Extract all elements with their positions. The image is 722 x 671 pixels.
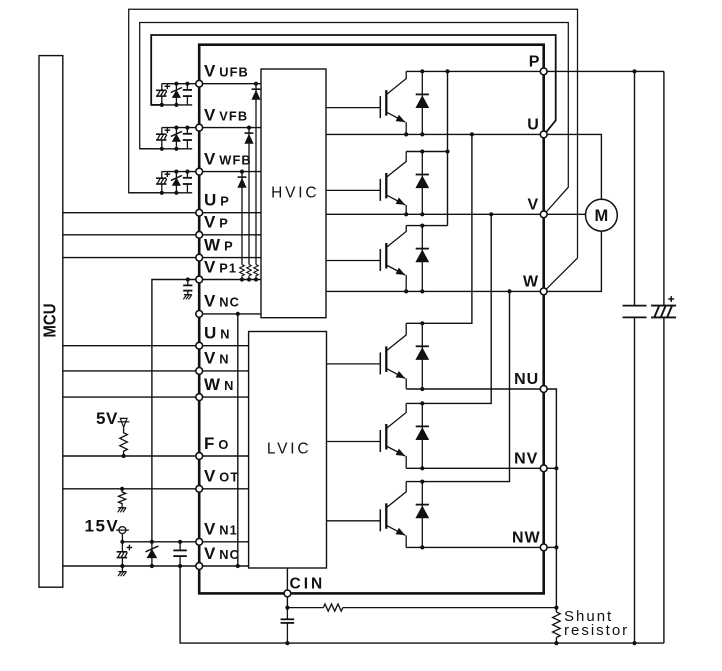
svg-text:P1: P1 — [219, 260, 237, 275]
MCU label — [40, 304, 60, 338]
svg-text:V: V — [204, 349, 216, 368]
wire V-phase feedback loop (V pin to VVFB bootstrap return) — [140, 23, 569, 213]
node VWFB return junction 2 — [174, 191, 178, 195]
transistor IGBT NV low-side — [327, 403, 407, 468]
wire V to NV collector — [406, 214, 491, 403]
node NU collector diode junction — [420, 321, 424, 325]
node VWFB return junction 1 — [160, 191, 164, 195]
node shunt bottom junction — [554, 641, 558, 645]
HVIC label — [271, 185, 319, 202]
resistor bootstrap current-limit RU (internal) — [254, 265, 259, 280]
VN pin label — [204, 349, 230, 368]
VN1 pin label — [204, 520, 238, 539]
node W rail junction x406 — [404, 289, 408, 293]
diode freewheel NW low-side — [415, 482, 429, 548]
wire VUFB bootstrap top rail — [162, 83, 199, 85]
wire NW pin to shunt column — [544, 546, 557, 548]
svg-text:V: V — [204, 544, 216, 563]
wire VP1 pin to HVIC — [199, 279, 261, 281]
node W rail junction x422 — [420, 289, 424, 293]
15V label — [85, 517, 120, 536]
pin VVFB — [196, 124, 203, 131]
wire 15V to VN1 pin — [122, 541, 199, 543]
electrolytic capacitor DC bus source — [651, 296, 676, 317]
node U rail junction x422 — [420, 132, 424, 136]
LVIC label — [267, 441, 312, 458]
svg-text:15V: 15V — [85, 517, 120, 536]
pin WN — [196, 394, 203, 401]
svg-text:P: P — [219, 216, 229, 231]
transistor IGBT U-phase high-side — [326, 71, 406, 134]
U pin label — [527, 117, 540, 134]
wire VNC pin to LVIC — [199, 565, 248, 567]
MCU block — [39, 56, 63, 588]
wire VN pin to LVIC — [199, 370, 248, 372]
node ground rail bulk cap junction — [632, 641, 636, 645]
wire VP1 to 15V supply line — [152, 280, 199, 542]
V pin label — [528, 197, 540, 214]
capacitor VP1 decoupling — [183, 280, 192, 295]
electrolytic capacitor 15V supply — [117, 542, 133, 566]
svg-text:F: F — [204, 434, 214, 453]
diode bootstrap DV (internal) — [244, 128, 253, 265]
capacitor U-phase bootstrap — [183, 84, 192, 105]
wire W output rail — [326, 290, 544, 292]
node VN1 zener junction — [150, 540, 154, 544]
svg-text:NU: NU — [514, 371, 539, 388]
node VVFB rail junction 2 — [185, 126, 189, 130]
pin CIN — [284, 590, 291, 597]
resistor 5V pull-up — [120, 427, 128, 456]
resistor bootstrap current-limit RV (internal) — [247, 265, 252, 280]
svg-text:OT: OT — [219, 470, 239, 485]
wire VUFB bootstrap bottom rail — [151, 104, 192, 106]
node VUFB rail junction 2 — [185, 82, 189, 86]
svg-text:U: U — [204, 324, 216, 343]
driver LVIC block — [249, 332, 327, 569]
svg-text:U: U — [527, 117, 540, 134]
wire W-phase feedback loop (W pin to VWFB bootstrap return) — [129, 9, 578, 289]
svg-text:V: V — [204, 467, 216, 486]
svg-text:P: P — [224, 238, 234, 253]
wire MCU to FO pin — [63, 455, 199, 457]
pin U — [540, 131, 547, 138]
VNC pin label — [204, 544, 240, 563]
NU pin label — [514, 371, 539, 388]
node VP1 decoupling tap — [186, 277, 190, 281]
node VP1 junction W — [240, 277, 244, 281]
VUFB pin label — [204, 62, 249, 81]
svg-text:N: N — [220, 327, 230, 342]
wire VN1 pin to LVIC — [199, 541, 248, 543]
node shunt NW junction — [554, 545, 558, 549]
P pin label — [529, 54, 541, 71]
power terminal 15V — [116, 527, 129, 542]
wire MCU to VOT pin — [63, 488, 199, 490]
svg-text:V: V — [204, 292, 216, 311]
svg-text:U: U — [204, 191, 216, 210]
node VVFB return junction 1 — [160, 147, 164, 151]
pin WP — [196, 254, 203, 261]
wire MCU to WN pin — [63, 396, 199, 398]
wire VVFB bootstrap bottom rail — [140, 148, 193, 150]
diode freewheel W-phase high-side — [415, 226, 429, 292]
electrolytic capacitor U-phase bootstrap — [156, 84, 170, 105]
node VUFB return junction 1 — [160, 103, 164, 107]
transistor IGBT NW low-side — [327, 482, 407, 548]
zener diode W-phase bootstrap — [171, 172, 182, 193]
node FO pull-up junction — [122, 454, 126, 458]
diode freewheel U-phase high-side — [415, 71, 429, 134]
diode freewheel NV low-side — [415, 403, 429, 468]
ground 15V supply — [118, 572, 126, 577]
wire V output rail — [326, 213, 544, 215]
svg-text:V: V — [204, 520, 216, 539]
wire P bus rail — [406, 70, 664, 72]
wire MCU to VNC pin — [63, 565, 199, 567]
node VN1 15V junction — [120, 540, 124, 544]
wire ground stub 15V — [121, 566, 123, 572]
node VWFB rail junction 2 — [185, 170, 189, 174]
wire MCU to WP pin — [63, 257, 199, 259]
wire NU emitter rail — [406, 388, 544, 390]
svg-text:M: M — [595, 207, 609, 225]
VP1 pin label — [204, 257, 237, 276]
node VUFB wire tap — [254, 82, 258, 86]
svg-text:P: P — [529, 54, 541, 71]
node P bus junction — [445, 69, 449, 73]
wire VP pin to HVIC — [199, 234, 261, 236]
node CIN cap ground junction — [285, 641, 289, 645]
node V rail junction x406 — [404, 212, 408, 216]
VP pin label — [204, 213, 229, 232]
wire VWFB pin to HVIC — [199, 171, 261, 173]
wire MCU to UN pin — [63, 345, 199, 347]
W pin label — [523, 274, 539, 291]
ground VP1 decoupling — [183, 295, 191, 300]
wire VWFB bootstrap bottom rail — [129, 192, 193, 194]
wire V high-side collector rail — [406, 151, 447, 153]
svg-text:P: P — [220, 194, 230, 209]
wire UP pin to HVIC — [199, 212, 261, 214]
svg-text:N: N — [224, 378, 234, 393]
pin NV — [540, 465, 547, 472]
VNC pin label — [204, 292, 240, 311]
node P bulk cap junction — [632, 69, 636, 73]
svg-text:CIN: CIN — [290, 576, 326, 593]
svg-text:NC: NC — [219, 295, 240, 310]
Shunt resistor label — [564, 608, 629, 639]
node P bus V junction — [445, 149, 449, 153]
capacitor DC bus bulk — [623, 306, 647, 318]
svg-text:NV: NV — [514, 451, 538, 468]
node CIN filter junction — [285, 606, 289, 610]
wire power ground rail — [287, 642, 664, 644]
power terminal 5V — [118, 418, 130, 427]
pin UP — [196, 209, 203, 216]
pin VN — [196, 368, 203, 375]
wire VNC to power ground rail — [180, 566, 287, 643]
pin VNC — [196, 311, 203, 318]
pin V — [540, 211, 547, 218]
FO pin label — [204, 434, 229, 453]
wire U output rail — [326, 133, 544, 135]
node NV collector diode junction — [420, 401, 424, 405]
node VP1 junction U — [254, 277, 258, 281]
capacitor W-phase bootstrap — [183, 172, 192, 193]
wire WN pin to LVIC — [199, 396, 248, 398]
transistor IGBT W-phase high-side — [326, 226, 406, 292]
svg-text:WFB: WFB — [219, 152, 251, 167]
svg-text:W: W — [523, 274, 539, 291]
electrolytic capacitor W-phase bootstrap — [156, 171, 170, 192]
transistor IGBT NU low-side — [327, 323, 407, 389]
pin VN1 — [196, 538, 203, 545]
svg-text:N: N — [219, 352, 229, 367]
VOT pin label — [204, 467, 239, 486]
svg-text:V: V — [204, 62, 216, 81]
wire UN pin to LVIC — [199, 345, 248, 347]
node VVFB return junction 2 — [174, 147, 178, 151]
wire FO pin to LVIC — [199, 455, 248, 457]
node VVFB rail junction 1 — [174, 126, 178, 130]
pin VOT — [196, 485, 203, 492]
WN pin label — [204, 375, 234, 394]
wire P bus vertical — [447, 71, 449, 225]
svg-text:V: V — [204, 105, 216, 124]
pin W — [540, 288, 547, 295]
zener diode V-phase bootstrap — [171, 128, 182, 149]
wire VOT pin to LVIC — [199, 488, 248, 490]
wire VNC top to VNC bottom — [237, 314, 239, 566]
svg-text:O: O — [218, 437, 229, 452]
wire WP pin to HVIC — [199, 257, 261, 259]
svg-text:N1: N1 — [219, 523, 238, 538]
svg-text:resistor: resistor — [564, 622, 629, 639]
wire VUFB pin to HVIC — [199, 83, 261, 85]
capacitor CIN filter — [281, 608, 295, 644]
electrolytic capacitor V-phase bootstrap — [156, 127, 170, 148]
node V rail junction x422 — [420, 212, 424, 216]
wire shunt to ground rail — [555, 638, 557, 644]
pin NW — [540, 544, 547, 551]
wire NW emitter rail — [406, 546, 544, 548]
node VNC bottom junction — [236, 564, 240, 568]
node VVFB wire tap — [247, 126, 251, 130]
wire VVFB bootstrap top rail — [162, 127, 199, 129]
5V label — [96, 409, 118, 428]
node VN1 cap junction — [178, 540, 182, 544]
wire DC source bottom — [663, 317, 665, 643]
pin VNC — [196, 563, 203, 570]
node VNC zener junction — [150, 564, 154, 568]
svg-text:LVIC: LVIC — [267, 441, 312, 458]
node V rail junction x491 — [489, 212, 493, 216]
node U rail junction x406 — [404, 132, 408, 136]
node VNC cap junction — [120, 564, 124, 568]
capacitor 15V filter — [173, 542, 187, 566]
node VWFB rail junction 1 — [174, 170, 178, 174]
zener diode U-phase bootstrap — [171, 84, 182, 105]
node V collector diode junction — [420, 149, 424, 153]
resistor shunt — [553, 612, 561, 638]
op-amp/driver HVIC block — [261, 69, 326, 318]
node VUFB return junction 2 — [174, 103, 178, 107]
zener diode 15V clamp — [146, 542, 159, 566]
node shunt NV junction — [554, 466, 558, 470]
wire VWFB bootstrap top rail — [162, 171, 199, 173]
node NV diode junction — [420, 466, 424, 470]
pin VUFB — [196, 80, 203, 87]
diode freewheel V-phase high-side — [415, 152, 429, 215]
wire U-phase feedback loop (U pin to VUFB bootstrap return) — [151, 35, 556, 132]
VVFB pin label — [204, 105, 248, 124]
node VP1 junction V — [247, 277, 251, 281]
UP pin label — [204, 191, 230, 210]
VWFB pin label — [204, 149, 252, 168]
svg-text:W: W — [204, 375, 221, 394]
capacitor V-phase bootstrap — [183, 128, 192, 149]
pin NU — [540, 386, 547, 393]
wire U to NU collector — [406, 134, 472, 323]
pin VP — [196, 231, 203, 238]
wire V pin to motor — [544, 213, 586, 215]
motor M — [586, 199, 618, 231]
node shunt CIN junction — [554, 606, 558, 610]
node NU diode junction — [420, 387, 424, 391]
wire CIN to filter node — [286, 593, 288, 607]
node VNC top junction — [236, 312, 240, 316]
wire W pin to motor — [544, 231, 602, 291]
resistor CIN filter — [287, 604, 556, 611]
wire VNC pin to HVIC — [199, 313, 261, 315]
node VUFB rail junction 1 — [174, 82, 178, 86]
node P diode junction — [420, 69, 424, 73]
wire W high-side collector rail — [406, 225, 447, 227]
svg-text:V: V — [528, 197, 540, 214]
node NW diode junction — [420, 545, 424, 549]
IPM module outline box — [199, 45, 544, 594]
wire DC source top — [663, 71, 665, 305]
node VNC filter junction — [178, 564, 182, 568]
wire NV pin to shunt column — [544, 467, 557, 469]
ground VOT resistor — [118, 508, 126, 513]
diode freewheel NU low-side — [415, 323, 429, 389]
svg-text:V: V — [204, 213, 216, 232]
wire bulk cap bottom — [634, 317, 636, 643]
UN pin label — [204, 324, 231, 343]
resistor VOT to ground — [119, 489, 126, 508]
node VWFB wire tap — [240, 170, 244, 174]
node W collector diode junction — [420, 224, 424, 228]
diode bootstrap DU (internal) — [251, 84, 260, 265]
svg-text:V: V — [204, 257, 216, 276]
svg-text:W: W — [204, 235, 221, 254]
wire MCU to VP pin — [63, 234, 199, 236]
wire W to NW collector — [406, 291, 509, 481]
svg-text:NW: NW — [512, 530, 541, 547]
node W rail junction x509 — [507, 289, 511, 293]
node U rail junction x471 — [470, 132, 474, 136]
NW pin label — [512, 530, 541, 547]
svg-text:UFB: UFB — [219, 65, 249, 80]
transistor IGBT V-phase high-side — [326, 152, 406, 215]
svg-text:V: V — [204, 149, 216, 168]
wire NU pin to shunt column — [544, 389, 557, 612]
pin FO — [196, 453, 203, 460]
svg-text:MCU: MCU — [40, 304, 60, 338]
WP pin label — [204, 235, 234, 254]
wire CIN internal — [286, 568, 288, 593]
diode bootstrap DW (internal) — [237, 172, 246, 265]
wire MCU to VN pin — [63, 370, 199, 372]
pin P — [540, 68, 547, 75]
CIN label — [290, 576, 326, 593]
pin VP1 — [196, 276, 203, 283]
node NW collector diode junction — [420, 480, 424, 484]
wire NV emitter rail — [406, 467, 544, 469]
wire U pin to motor — [544, 134, 602, 199]
svg-text:5V: 5V — [96, 409, 118, 428]
pin UN — [196, 342, 203, 349]
wire MCU to UP pin — [63, 212, 199, 214]
svg-text:HVIC: HVIC — [271, 185, 319, 202]
svg-text:VFB: VFB — [219, 108, 248, 123]
NV pin label — [514, 451, 538, 468]
svg-text:NC: NC — [219, 547, 240, 562]
wire VVFB pin to HVIC — [199, 127, 261, 129]
resistor bootstrap current-limit RW (internal) — [240, 265, 245, 280]
pin VWFB — [196, 168, 203, 175]
node VOT resistor junction — [120, 487, 124, 491]
wire bulk cap top — [634, 71, 636, 305]
